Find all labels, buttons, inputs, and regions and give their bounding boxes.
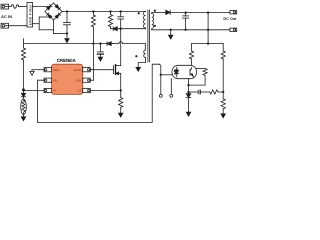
output rectifier D4: [166, 10, 230, 14]
DC out terminal bottom: [230, 28, 237, 31]
snubber resistor R2: [108, 12, 112, 29]
ground arrow below bulk cap: [65, 34, 69, 43]
TL431 U3: [186, 94, 191, 117]
AC input terminal J2 bottom: [1, 23, 9, 28]
wire bridge bottom corner down: [53, 20, 55, 34]
svg-text:EMI Filter: EMI Filter: [28, 3, 32, 25]
svg-text:GND: GND: [53, 68, 59, 72]
wire to bridge bottom corner: [39, 29, 53, 31]
divider bottom resistor R7: [221, 99, 225, 118]
opto bias resistor R5: [189, 44, 193, 66]
GND pin wire and ground: [30, 70, 44, 76]
VDD capacitor C3: [97, 44, 103, 62]
VDD aux wire with hop over drain: [24, 42, 146, 50]
svg-text:DC Out: DC Out: [223, 17, 237, 21]
CS sense resistor R4: [119, 91, 123, 118]
fusible resistor RF1: [21, 99, 27, 121]
svg-text:CR6850A: CR6850A: [57, 58, 77, 63]
MOSFET drain column: [120, 29, 122, 66]
wire fuse to EMI filter: [18, 6, 27, 8]
output capacitor C5 link: [207, 13, 209, 30]
FB pin wire long loop: [38, 64, 159, 122]
opto LED cathode column to TL431: [188, 79, 190, 94]
secondary top rail: [152, 12, 166, 14]
compensation network C6 R9: [189, 90, 224, 94]
chain diode D2: [21, 93, 25, 99]
svg-text:CS: CS: [77, 89, 81, 93]
EMI filter LF1: [27, 3, 33, 28]
CS wire: [90, 90, 120, 92]
GATE wire: [90, 69, 113, 71]
transformer T1 primary winding: [143, 12, 145, 29]
startup resistor R1: [90, 12, 95, 81]
AC input terminal J1 top: [1, 4, 11, 9]
opto parallel resistor R8: [189, 69, 208, 86]
wire to bridge lower-left edge: [39, 16, 50, 18]
opto bottom-left pin to terminal circle: [170, 79, 173, 98]
svg-text:VDD: VDD: [75, 78, 81, 82]
junction dots: [22, 10, 224, 93]
transformer aux winding: [136, 50, 146, 71]
bulk capacitor C1: [64, 12, 71, 34]
svg-text:FB: FB: [53, 78, 57, 82]
left chain resistor R3: [21, 39, 25, 94]
feedback bus: [192, 30, 224, 44]
IC pin labels: [53, 68, 81, 93]
RT pin wire: [24, 90, 45, 92]
divider top resistor R6: [221, 44, 225, 99]
snubber capacitor C2: [118, 12, 124, 29]
svg-text:RT: RT: [53, 89, 57, 93]
top HV rail: [62, 11, 146, 13]
optocoupler U2: [172, 65, 197, 78]
opto primary-side pin column with rounded corner: [159, 64, 172, 97]
svg-text:GATE: GATE: [74, 68, 82, 72]
transformer core: [148, 10, 150, 62]
output capacitor C4: [183, 13, 189, 30]
wire J2 to EMI filter: [9, 25, 28, 27]
IC U1 CR6850A: [44, 64, 90, 94]
aux rectifier diode D3: [107, 42, 111, 46]
winding polarity dots: [138, 12, 140, 14]
secondary bottom rail: [152, 29, 230, 31]
secondary ground arrow: [169, 30, 173, 39]
DC out terminal top: [230, 11, 237, 14]
transformer secondary winding: [152, 13, 154, 30]
bridge rectifier BR1: [45, 3, 62, 20]
MOSFET Q1: [114, 65, 121, 91]
clamp diode D1: [111, 27, 146, 31]
fuse F1: [11, 5, 19, 8]
wire vertical x39: [38, 17, 40, 30]
wire filter bottom pin: [33, 23, 40, 25]
wire filter to bridge upper edge: [33, 6, 51, 8]
svg-text:AC IN: AC IN: [1, 15, 12, 19]
wire to bulk cap bottom: [54, 33, 68, 35]
